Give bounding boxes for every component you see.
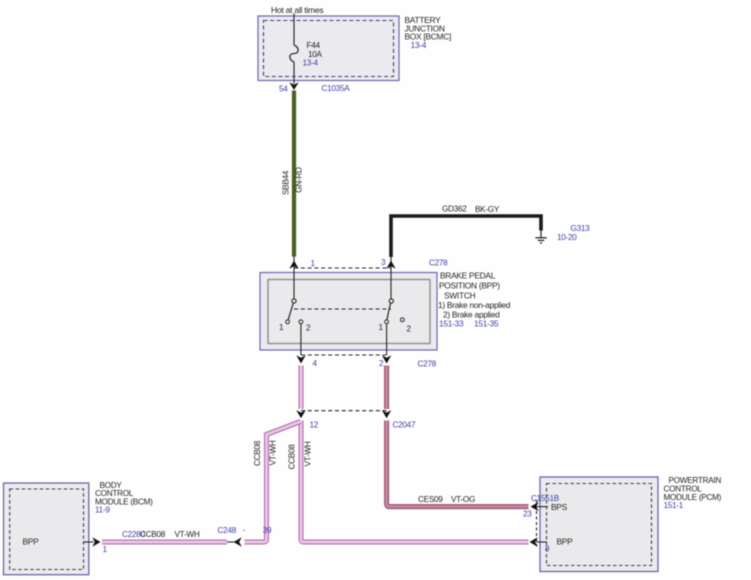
PCM connector C1551B dashed line xyxy=(531,494,560,547)
svg-text:BPS: BPS xyxy=(551,502,568,512)
svg-text:151-35: 151-35 xyxy=(474,319,499,329)
connector C1035A pin 54 arrow xyxy=(279,82,350,93)
svg-text:CCB08: CCB08 xyxy=(140,530,166,539)
svg-text:F44: F44 xyxy=(307,41,321,50)
svg-text:10-20: 10-20 xyxy=(557,233,577,242)
fuse F44 xyxy=(290,45,298,62)
switch linkage (dashed) xyxy=(294,308,391,310)
svg-text:SWITCH: SWITCH xyxy=(444,291,476,301)
PCM pin 8 BPP xyxy=(530,537,574,554)
svg-text:SBB44: SBB44 xyxy=(282,170,291,195)
wire C2280 CCB08 VT-WH BCM to C248 xyxy=(102,530,227,542)
svg-text:GN-RD: GN-RD xyxy=(295,167,304,193)
svg-text:VT-OG: VT-OG xyxy=(451,495,475,504)
svg-text:3: 3 xyxy=(381,258,386,267)
connector C2047 xyxy=(296,410,416,429)
svg-text:8: 8 xyxy=(545,545,550,554)
svg-text:VT-WH: VT-WH xyxy=(304,441,313,466)
svg-text:G313: G313 xyxy=(571,224,591,233)
svg-text:VT-WH: VT-WH xyxy=(269,440,278,465)
svg-text:39: 39 xyxy=(263,526,272,535)
label BATTERY JUNCTION BOX [BCMC] 13-4 xyxy=(405,15,452,50)
BCM pin 1 arrow xyxy=(83,537,108,554)
wire CCB08 VT-WH branch to PCM (right branch) xyxy=(301,421,529,543)
svg-text:13-4: 13-4 xyxy=(303,59,319,68)
rotated wire labels CCB08 VT-WH (left pair) xyxy=(253,440,278,466)
wire VT-WH pin4 to C2047 xyxy=(299,366,304,410)
svg-text:C278: C278 xyxy=(429,259,448,268)
svg-text:C248: C248 xyxy=(218,526,237,535)
label BODY CONTROL MODULE (BCM) 11-9 xyxy=(95,481,153,514)
connector C278 bottom xyxy=(296,355,436,369)
connector C248 xyxy=(218,526,272,547)
svg-text:-: - xyxy=(243,526,246,535)
switch 2 (right) xyxy=(379,268,412,355)
wire GD362 BK-GY (black) xyxy=(391,205,541,258)
svg-text:2: 2 xyxy=(407,325,412,334)
wire fuse to box bottom xyxy=(293,62,295,84)
svg-text:12: 12 xyxy=(310,421,319,430)
ground G313 xyxy=(535,224,590,243)
svg-text:1: 1 xyxy=(379,323,384,332)
svg-text:1: 1 xyxy=(311,259,316,268)
svg-text:2: 2 xyxy=(379,359,384,368)
svg-text:C2047: C2047 xyxy=(393,421,416,430)
svg-text:VT-WH: VT-WH xyxy=(175,530,200,539)
svg-text:BPP: BPP xyxy=(23,537,40,547)
rotated wire labels CCB08 VT-WH (right pair) xyxy=(288,441,313,469)
svg-text:POSITION (BPP): POSITION (BPP) xyxy=(439,281,500,291)
svg-text:13-4: 13-4 xyxy=(411,40,427,50)
svg-text:1) Brake non-applied: 1) Brake non-applied xyxy=(438,300,511,310)
wire CES09 VT-OG to PCM xyxy=(387,421,529,507)
BPP switch box xyxy=(260,273,437,351)
battery junction box BJB (BCMC) xyxy=(258,16,399,81)
connector C278 top xyxy=(289,256,448,269)
svg-text:Hot at all times: Hot at all times xyxy=(271,5,323,15)
svg-text:C278: C278 xyxy=(418,360,437,369)
svg-text:4: 4 xyxy=(313,359,318,368)
svg-text:BK-GY: BK-GY xyxy=(475,205,500,214)
svg-text:BRAKE PEDAL: BRAKE PEDAL xyxy=(440,271,496,281)
svg-text:54: 54 xyxy=(279,85,288,94)
body control module BCM box xyxy=(4,483,89,575)
wire SBB44 GN-RD (green) xyxy=(282,91,304,257)
wire VT-OG pin2 to C2047 xyxy=(384,366,389,410)
powertrain control module PCM box xyxy=(540,477,658,572)
svg-text:GD362: GD362 xyxy=(442,205,467,214)
svg-text:23: 23 xyxy=(523,510,532,519)
wire CCB08 VT-WH branch to C248 (left branch) xyxy=(245,422,301,543)
svg-text:2: 2 xyxy=(306,324,311,333)
svg-text:151-33: 151-33 xyxy=(439,319,464,329)
svg-text:CES09: CES09 xyxy=(418,495,443,504)
label POWERTRAIN CONTROL MODULE (PCM) 151-1 xyxy=(664,476,722,510)
svg-text:151-1: 151-1 xyxy=(664,501,684,510)
svg-text:BPP: BPP xyxy=(557,537,574,547)
PCM pin 23 BPS xyxy=(523,502,568,519)
svg-text:C1035A: C1035A xyxy=(322,84,351,93)
switch 1 (left) xyxy=(279,268,311,355)
svg-text:CCB08: CCB08 xyxy=(253,440,262,466)
svg-text:CCB08: CCB08 xyxy=(288,444,297,470)
wire fuse feed xyxy=(293,14,295,46)
svg-text:11-9: 11-9 xyxy=(95,505,110,514)
svg-text:1: 1 xyxy=(103,545,108,554)
label F44 10A 13-4 xyxy=(303,41,323,68)
label BRAKE PEDAL POSITION (BPP) SWITCH xyxy=(438,271,511,329)
svg-text:1: 1 xyxy=(279,323,284,332)
